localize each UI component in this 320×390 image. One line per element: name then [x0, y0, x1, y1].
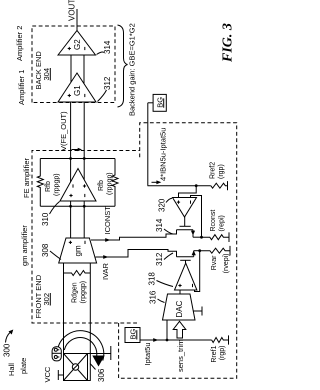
leader 306 — [90, 364, 96, 370]
svg-text:316: 316 — [149, 290, 158, 304]
wire FE to G1 lower — [83, 102, 85, 180]
svg-text:plate: plate — [19, 358, 28, 374]
svg-text:(rgp): (rgp) — [218, 164, 225, 179]
wires G1 to G2 — [70, 55, 72, 82]
svg-text:308: 308 — [41, 243, 50, 257]
BG box 1 — [125, 328, 140, 343]
leader arrow for 300 — [6, 332, 11, 343]
arrow ICONST — [105, 238, 110, 242]
Rref1 bottom bar — [228, 335, 230, 344]
svg-text:300: 300 — [3, 343, 12, 357]
svg-text:314: 314 — [155, 218, 164, 232]
leader 310 — [50, 202, 60, 215]
resistor Rref2 — [211, 183, 228, 188]
svg-text:V(FE_OUT): V(FE_OUT) — [59, 111, 68, 151]
transistor 314 — [177, 217, 202, 238]
arrow 4*IBN5u — [152, 181, 159, 183]
back end dashed box 304 — [32, 26, 115, 103]
svg-text:IVAR: IVAR — [101, 262, 110, 280]
svg-text:Iptat5u: Iptat5u — [143, 343, 152, 366]
wire VOUT — [76, 9, 78, 31]
svg-text:DAC: DAC — [175, 300, 184, 317]
op-amp G2 314 — [58, 31, 96, 56]
DAC ground stub — [194, 310, 203, 312]
front end dashed box 302 — [32, 151, 140, 324]
svg-text:G1: G1 — [73, 85, 82, 96]
svg-text:Rfb: Rfb — [98, 180, 105, 191]
resistor Rvar — [200, 248, 230, 253]
chopper arc outer — [57, 331, 103, 361]
wire hall to gm upper — [63, 263, 65, 354]
node dot Rconst top — [200, 236, 203, 239]
resistor Rref1 — [212, 338, 229, 343]
chopper clock phase box — [52, 347, 61, 361]
Rref2 bottom bar — [227, 181, 229, 190]
svg-text:FE amplifier: FE amplifier — [22, 157, 31, 198]
gm amplifier 308 — [59, 238, 97, 263]
svg-text:Rdgen: Rdgen — [72, 282, 79, 303]
leader 312 — [98, 90, 107, 102]
wire gm to FE lower — [83, 201, 85, 238]
svg-text:Amplifier 1: Amplifier 1 — [17, 70, 26, 105]
svg-text:gm: gm — [74, 245, 83, 256]
underbrace backend gain — [118, 25, 128, 107]
svg-text:(repi): (repi) — [219, 215, 226, 231]
wire gm to FE upper — [70, 201, 72, 238]
bias section dashed boundary — [119, 123, 237, 379]
svg-text:312: 312 — [155, 252, 164, 266]
op-amp 318 — [175, 263, 197, 290]
svg-text:Rfb: Rfb — [45, 181, 52, 192]
svg-text:(rgp): (rgp) — [219, 346, 226, 361]
resistor Rdgen — [64, 271, 91, 276]
svg-text:320: 320 — [158, 198, 167, 212]
svg-text:(rvepi): (rvepi) — [223, 254, 230, 274]
leader 314 transistor — [164, 229, 173, 234]
node dot Rvar top — [198, 249, 201, 252]
svg-text:Rref2: Rref2 — [210, 162, 217, 179]
svg-text:(rppgp): (rppgp) — [54, 173, 61, 196]
wire 320 minus input feedback — [191, 196, 202, 238]
wire 4*IBN5u arm — [147, 103, 149, 186]
leader 316 — [158, 299, 165, 303]
svg-text:306: 306 — [97, 368, 106, 382]
svg-text:BG: BG — [129, 328, 138, 339]
Rconst bottom bar — [228, 232, 230, 242]
wire 318 feedback — [195, 251, 200, 292]
svg-text:Backend gain: GBE=G1*G2: Backend gain: GBE=G1*G2 — [128, 23, 137, 116]
svg-text:Rref1: Rref1 — [211, 345, 218, 362]
BG box 2 — [153, 94, 166, 111]
svg-text:gm amplifier: gm amplifier — [20, 225, 29, 266]
DAC 316 — [163, 294, 196, 320]
leader 308 — [50, 251, 61, 260]
svg-text:(rpgqp): (rpgqp) — [80, 281, 87, 304]
svg-text:FIG. 3: FIG. 3 — [221, 23, 236, 63]
ground wire from hall plate — [88, 353, 111, 355]
wire BG2 stub — [148, 102, 153, 104]
wire Iptat5u — [140, 339, 212, 341]
hall plate center circle — [72, 364, 78, 370]
svg-text:VOUT: VOUT — [68, 0, 77, 21]
svg-text:(rppgp): (rppgp) — [107, 172, 114, 195]
svg-text:G2: G2 — [73, 39, 82, 50]
svg-text:Rconst: Rconst — [210, 210, 217, 232]
transistor 312 — [177, 250, 200, 263]
svg-text:304: 304 — [42, 68, 51, 81]
wire FE to G1 upper — [70, 102, 72, 182]
svg-text:4*IBN5u-Iptat5u: 4*IBN5u-Iptat5u — [159, 128, 168, 181]
FE feedback right rail — [40, 158, 115, 160]
chopper arc inner — [64, 338, 96, 358]
svg-text:BG: BG — [155, 97, 164, 108]
VCC terminal bar — [57, 370, 59, 380]
arrow V(FE_OUT) — [72, 149, 79, 151]
arrow IVAR — [103, 255, 108, 259]
wire 320 plus input — [179, 186, 197, 198]
op-amp 320 — [173, 198, 197, 218]
wire VCC to hall plate — [58, 374, 63, 376]
node dot DAC ref — [166, 339, 169, 342]
wire 4*IBN5u node vertical — [148, 185, 211, 187]
hall plate X diagonals — [64, 354, 88, 381]
resistor Rfb bottom — [112, 159, 118, 207]
op-amp FE 310 — [60, 169, 96, 202]
leader 318 — [157, 281, 174, 287]
svg-text:312: 312 — [103, 76, 112, 90]
svg-text:Amplifier 2: Amplifier 2 — [15, 26, 24, 61]
svg-text:Rvar: Rvar — [211, 255, 218, 270]
hall plate 306 box — [64, 354, 88, 381]
FE feedback left rail — [40, 205, 115, 207]
svg-text:ICONST: ICONST — [103, 206, 112, 235]
node dot 320 input junction — [195, 184, 198, 187]
ground bar — [110, 346, 112, 360]
svg-text:314: 314 — [103, 40, 112, 54]
svg-text:302: 302 — [42, 293, 51, 306]
wire hall to gm lower — [88, 263, 91, 381]
svg-text:318: 318 — [148, 272, 157, 286]
wire DAC ref — [166, 320, 168, 340]
sens_trim block arrow — [173, 321, 186, 338]
arrow Iptat5u — [153, 338, 158, 342]
Rvar bottom bar — [229, 246, 231, 256]
wire DAC to 318 — [179, 290, 181, 294]
svg-text:VCC: VCC — [43, 366, 52, 382]
svg-text:310: 310 — [41, 212, 50, 226]
resistor Rfb top — [37, 159, 43, 207]
chopper arrowhead — [92, 356, 104, 367]
svg-text:Hall: Hall — [7, 363, 16, 376]
wire IVAR — [96, 250, 177, 258]
leader 312 transistor — [164, 253, 173, 260]
svg-text:sens_trim: sens_trim — [176, 340, 185, 373]
op-amp G1 312 — [58, 73, 96, 102]
leader 314 — [97, 52, 105, 54]
resistor Rconst — [202, 235, 230, 240]
leader 320 — [166, 198, 172, 202]
wire ICONST — [91, 230, 177, 240]
node dots FE rails — [69, 205, 72, 208]
